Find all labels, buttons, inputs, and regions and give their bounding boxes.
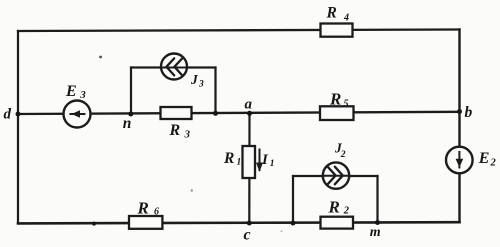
speck [99,56,102,59]
svg-text:J: J [190,72,199,87]
label E3 [65,83,86,101]
svg-text:5: 5 [344,99,349,110]
svg-text:n: n [123,115,132,132]
svg-text:E: E [478,150,490,167]
J2 chevrons (point right) [323,167,349,185]
speck [191,189,193,191]
node a [247,111,252,116]
label R1 [223,150,241,168]
svg-text:R: R [326,5,337,22]
label R6 [137,199,160,218]
svg-text:b: b [465,104,473,121]
svg-text:R: R [223,150,234,167]
svg-text:1: 1 [237,158,242,168]
resistor R1 [243,146,256,178]
label R4 [326,5,350,24]
svg-text:1: 1 [270,159,275,169]
svg-text:R: R [137,199,149,218]
E3 arrow (points left) [70,110,86,118]
source J2 circle [323,162,349,188]
label J3 [190,72,204,90]
label R2 [328,198,350,217]
speck [281,230,283,232]
wire J3 loop right [214,68,216,115]
svg-text:R: R [329,90,341,109]
svg-text:2: 2 [343,206,350,217]
svg-text:4: 4 [343,13,349,24]
node n [128,112,133,117]
label R5 [329,90,349,110]
label R3 [169,122,191,141]
svg-text:d: d [4,107,12,123]
J3 chevrons (point left) [162,58,188,75]
resistor R6 [129,216,162,229]
wire R1 branch a-c [248,114,250,224]
source J3 circle [161,54,187,80]
dot speck on bottom wire [92,222,96,226]
svg-text:E: E [65,83,77,100]
node b [457,109,462,114]
source E2 circle [446,147,473,174]
wire left vertical d branch [17,31,19,223]
svg-text:m: m [370,225,381,240]
svg-text:R: R [328,198,340,217]
label I1 [261,152,275,169]
node d [16,112,21,117]
wire J3 loop left [130,68,132,115]
node m [375,220,380,225]
E2 arrow (points down) [456,151,464,169]
wire bottom [18,222,460,223]
svg-text:I: I [261,152,269,168]
wire right vertical b-E2 [458,30,460,223]
svg-text:3: 3 [198,80,204,90]
resistor R5 [320,106,354,120]
svg-text:a: a [245,97,253,113]
resistor R4 [321,24,353,37]
svg-text:c: c [244,227,251,244]
resistor R2 [321,217,354,229]
wire J2 loop left [292,176,294,223]
source E3 circle [64,101,91,128]
svg-text:2: 2 [340,150,346,160]
node c [247,221,252,226]
svg-text:3: 3 [184,129,191,141]
label J2 [334,141,346,161]
junction J3-right on middle wire [213,111,218,116]
svg-text:2: 2 [490,158,497,169]
wire top d-b [18,30,460,32]
svg-text:3: 3 [79,89,86,101]
label E2 [478,150,497,169]
resistor R3 [161,107,192,119]
wire middle d-n-a-b [18,112,460,114]
wire J3 loop top [131,66,216,68]
junction J2-left on bottom wire [291,221,296,226]
I1 arrow (points down) [256,149,263,173]
wire J2 loop top [293,175,378,177]
wire J2 loop right [376,176,378,223]
svg-text:6: 6 [154,207,159,218]
svg-text:R: R [169,122,181,139]
